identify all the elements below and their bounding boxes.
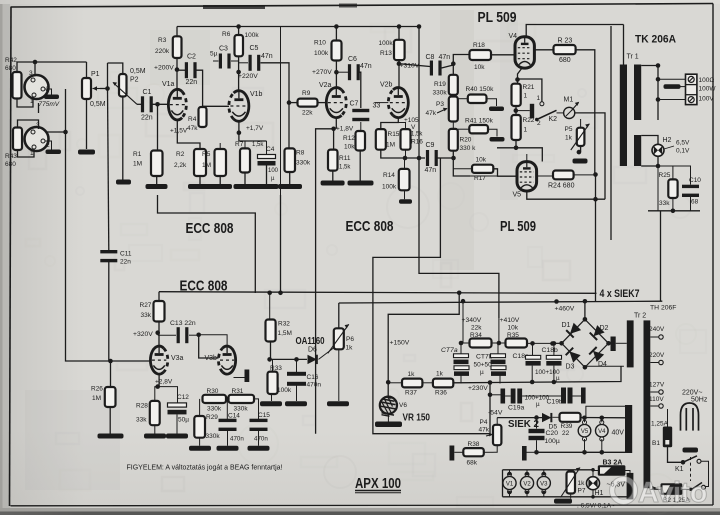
svg-text:33k: 33k bbox=[136, 417, 147, 424]
resistor R37 bbox=[402, 371, 422, 397]
svg-text:V2a: V2a bbox=[319, 82, 332, 89]
svg-text:127V: 127V bbox=[649, 382, 665, 389]
svg-text:100W: 100W bbox=[699, 86, 717, 93]
potentiometer P4 bbox=[479, 419, 502, 445]
wire to V3a grid bbox=[63, 130, 150, 364]
label C3 5u bbox=[210, 46, 228, 58]
tube V5 bbox=[513, 162, 537, 199]
label ~6,3V bbox=[607, 482, 626, 489]
wire XLR2 node bbox=[18, 103, 39, 157]
svg-text:µ: µ bbox=[536, 401, 540, 408]
capacitor C6 bbox=[348, 56, 372, 80]
wire right feeds bbox=[660, 211, 662, 301]
svg-text:D2: D2 bbox=[600, 325, 609, 332]
capacitor C11 bbox=[100, 250, 132, 266]
ground R12 bbox=[348, 181, 374, 186]
tube V3b bbox=[205, 346, 236, 374]
svg-text:33k: 33k bbox=[141, 312, 152, 319]
svg-text:+1,7V: +1,7V bbox=[246, 125, 264, 132]
ground R5 bbox=[208, 143, 232, 189]
svg-text:47n: 47n bbox=[360, 63, 372, 70]
svg-text:C2: C2 bbox=[187, 54, 196, 61]
svg-text:33: 33 bbox=[373, 103, 381, 110]
ground V6 bbox=[375, 414, 402, 427]
svg-text:1,5M: 1,5M bbox=[278, 330, 292, 337]
wire P1 bbox=[86, 62, 88, 149]
capacitor C18b bbox=[546, 344, 561, 385]
svg-text:22: 22 bbox=[562, 430, 570, 437]
svg-text:1k: 1k bbox=[436, 371, 444, 378]
svg-text:330k: 330k bbox=[296, 160, 311, 167]
wire C9 right bbox=[438, 156, 456, 161]
heater V2 bbox=[520, 472, 533, 495]
svg-text:22n: 22n bbox=[141, 115, 153, 122]
switch K2 bbox=[535, 110, 557, 127]
resistor R1 bbox=[133, 151, 163, 177]
wire heater stubs bbox=[510, 470, 544, 497]
svg-text:V3a: V3a bbox=[171, 355, 184, 362]
lamp H1 bbox=[587, 468, 604, 499]
wire V5 cathode bbox=[527, 172, 605, 301]
wire C20 bottom bbox=[527, 440, 539, 454]
svg-text:R 23: R 23 bbox=[558, 38, 573, 45]
label +340V bbox=[462, 317, 483, 339]
labels outputs bbox=[699, 77, 717, 103]
svg-text:R43: R43 bbox=[5, 153, 17, 160]
label PL509 top bbox=[478, 10, 517, 26]
svg-text:+220V: +220V bbox=[238, 73, 258, 80]
svg-text:H1: H1 bbox=[595, 490, 604, 497]
svg-text:H2: H2 bbox=[663, 137, 672, 144]
svg-text:C6: C6 bbox=[348, 56, 357, 63]
transformer Tr1 secondary bottom bar bbox=[634, 135, 641, 166]
label +1,5V bbox=[170, 128, 188, 135]
wire C3 bbox=[213, 60, 239, 62]
capacitor C2 bbox=[185, 54, 197, 87]
svg-text:C3: C3 bbox=[219, 46, 228, 53]
resistor R7 bbox=[235, 141, 264, 173]
resistor R16 bbox=[401, 129, 424, 150]
svg-text:R11: R11 bbox=[339, 155, 351, 162]
wire P4 bbox=[494, 418, 498, 453]
svg-text:R33: R33 bbox=[270, 365, 282, 372]
wire R25 C10 top bbox=[658, 166, 691, 185]
svg-text:220k: 220k bbox=[155, 48, 170, 55]
svg-text:+1,8V: +1,8V bbox=[336, 126, 354, 133]
wire R33 bbox=[272, 359, 273, 401]
potentiometer P1 bbox=[82, 71, 106, 108]
label Tr 2 bbox=[634, 313, 646, 320]
wire Tr2 HV top bbox=[0, 0, 1, 1]
svg-text:R18: R18 bbox=[473, 42, 485, 49]
svg-text:100k: 100k bbox=[382, 184, 397, 191]
capacitor C10 bbox=[682, 177, 701, 206]
svg-text:P1: P1 bbox=[91, 71, 100, 78]
svg-text:R20: R20 bbox=[460, 137, 472, 144]
wire R39 bbox=[553, 416, 629, 419]
label C19b bbox=[547, 399, 563, 406]
svg-text:C20: C20 bbox=[546, 430, 559, 437]
svg-text:1M: 1M bbox=[133, 161, 142, 168]
svg-text:22k: 22k bbox=[302, 110, 313, 117]
resistor R24 bbox=[548, 171, 575, 190]
label ECC808 bottom bbox=[180, 279, 228, 295]
resistor R40 bbox=[466, 86, 495, 103]
svg-text:10k: 10k bbox=[474, 64, 485, 71]
label PL509 mid bbox=[500, 219, 536, 235]
wire R10 bbox=[334, 27, 339, 89]
label 775mV bbox=[39, 89, 60, 108]
diode D4 bbox=[589, 347, 607, 368]
label ECC808 mid bbox=[346, 219, 394, 235]
svg-text:Avito: Avito bbox=[638, 477, 707, 509]
heater V5b bbox=[578, 416, 591, 455]
svg-text:R30: R30 bbox=[207, 388, 219, 395]
wire R17 to V5 grid bbox=[470, 169, 517, 176]
svg-text:P5: P5 bbox=[565, 126, 573, 133]
wire 40V top bbox=[586, 406, 629, 417]
svg-text:47k: 47k bbox=[426, 110, 437, 117]
svg-text:+460V: +460V bbox=[555, 306, 575, 313]
fuse B2 bbox=[661, 483, 691, 504]
svg-text:470n: 470n bbox=[230, 436, 244, 443]
svg-text:1,25A: 1,25A bbox=[651, 421, 669, 428]
svg-text:68: 68 bbox=[691, 199, 699, 206]
capacitor C19a bbox=[501, 389, 523, 404]
wire R14 bbox=[399, 158, 412, 204]
svg-text:R2: R2 bbox=[176, 151, 185, 158]
heater V4b bbox=[596, 416, 609, 455]
resistor R36 bbox=[433, 371, 453, 397]
svg-text:680: 680 bbox=[5, 65, 16, 72]
capacitor C9 bbox=[425, 142, 438, 174]
label +460V bbox=[554, 299, 575, 312]
svg-text:R7: R7 bbox=[235, 141, 244, 148]
svg-text:K2: K2 bbox=[549, 116, 558, 123]
svg-text:0,5M: 0,5M bbox=[130, 68, 146, 75]
svg-text:R15: R15 bbox=[388, 131, 400, 138]
svg-text:C15: C15 bbox=[258, 412, 270, 419]
svg-text:1: 1 bbox=[524, 127, 528, 134]
label Tr 1 bbox=[627, 54, 639, 61]
svg-text:C19b: C19b bbox=[547, 399, 563, 406]
bus bottom ECC bbox=[159, 291, 597, 296]
svg-text:220V: 220V bbox=[649, 352, 665, 359]
section line ECC1 bbox=[158, 195, 256, 293]
wire R27 bbox=[155, 292, 160, 346]
svg-text:C12: C12 bbox=[177, 394, 189, 401]
wire R13 bbox=[397, 24, 402, 88]
svg-text:SIEK 2: SIEK 2 bbox=[508, 418, 539, 430]
label +320V bbox=[133, 331, 153, 338]
svg-text:P6: P6 bbox=[346, 336, 354, 343]
wire B1 bbox=[668, 409, 686, 465]
plug base bar bbox=[683, 431, 699, 453]
resistor R17 bbox=[472, 157, 493, 183]
transformer Tr2 63V bar bbox=[627, 473, 634, 500]
wire Tr1 secondary top bbox=[641, 63, 660, 120]
wire R1 bbox=[156, 104, 159, 184]
svg-text:50+50: 50+50 bbox=[474, 362, 493, 369]
ground P5 bbox=[573, 159, 588, 164]
svg-text:330k: 330k bbox=[207, 406, 222, 413]
diode D5 bbox=[542, 413, 557, 431]
svg-text:R12: R12 bbox=[343, 135, 355, 142]
tube V1a bbox=[162, 81, 186, 120]
svg-text:R29: R29 bbox=[206, 414, 218, 421]
capacitor C12 bbox=[168, 394, 190, 424]
svg-text:TK 206A: TK 206A bbox=[635, 34, 676, 46]
svg-text:. 6,5V/ 0,1A -: . 6,5V/ 0,1A - bbox=[577, 503, 615, 510]
potentiometer P2 bbox=[113, 68, 146, 104]
label C18a bbox=[513, 353, 529, 360]
svg-text:V1: V1 bbox=[506, 482, 514, 488]
svg-text:1k: 1k bbox=[578, 480, 586, 487]
svg-text:+230V: +230V bbox=[468, 385, 488, 392]
wire C19 node bbox=[488, 393, 581, 398]
svg-text:3: 3 bbox=[29, 70, 33, 77]
svg-text:B1: B1 bbox=[652, 440, 660, 447]
svg-text:K1: K1 bbox=[675, 466, 684, 473]
wire P1 wiper to node bbox=[100, 86, 110, 91]
svg-text:47k: 47k bbox=[479, 427, 490, 434]
label CT7a bbox=[441, 347, 458, 354]
svg-text:1M: 1M bbox=[92, 395, 101, 402]
wire V3b grid bbox=[199, 335, 219, 358]
switch K1 pole2 bbox=[689, 457, 705, 491]
resistor R3 bbox=[155, 36, 182, 58]
svg-text:100k: 100k bbox=[379, 40, 394, 47]
resistor R13 bbox=[394, 40, 405, 60]
svg-text:R1: R1 bbox=[133, 151, 142, 158]
label +220V bbox=[238, 73, 258, 80]
wire bridge bottom bbox=[585, 366, 624, 367]
wire R4 to V1b grid bbox=[203, 105, 229, 107]
ground P2 bbox=[116, 180, 131, 185]
P4 arrow bbox=[486, 433, 493, 437]
svg-text:10k: 10k bbox=[476, 157, 487, 164]
svg-text:C14: C14 bbox=[228, 413, 240, 420]
capacitor C3 bbox=[219, 54, 231, 69]
wire R41 bbox=[458, 129, 505, 141]
svg-text:PL 509: PL 509 bbox=[478, 10, 517, 26]
ground P6 bbox=[327, 401, 349, 406]
label +2,8V bbox=[155, 379, 173, 386]
resistor R22 bbox=[512, 115, 535, 140]
svg-text:R40 150k: R40 150k bbox=[466, 86, 495, 93]
svg-text:C13 22n: C13 22n bbox=[170, 320, 196, 327]
ground P1 bbox=[78, 150, 95, 155]
wire C1 right to V1a grid bbox=[152, 102, 169, 107]
svg-text:330k: 330k bbox=[234, 406, 249, 413]
tube V6 VR150 bbox=[380, 397, 408, 417]
fuse B3 bbox=[598, 460, 626, 476]
wire P6 bbox=[338, 303, 340, 401]
svg-text:5µ: 5µ bbox=[210, 51, 218, 58]
transformer Tr2 40V bar bbox=[625, 405, 632, 453]
svg-text:470n: 470n bbox=[307, 382, 322, 389]
svg-text:R5: R5 bbox=[202, 151, 211, 158]
label +1,8V bbox=[336, 126, 354, 133]
svg-text:1: 1 bbox=[537, 95, 541, 102]
svg-text:+200V: +200V bbox=[154, 65, 174, 72]
svg-text:R42: R42 bbox=[5, 57, 17, 64]
svg-text:50Hz: 50Hz bbox=[691, 397, 708, 404]
svg-text:P3: P3 bbox=[436, 101, 444, 108]
resistor R29 bbox=[194, 414, 220, 440]
wire heater top bus bbox=[503, 470, 594, 497]
svg-text:CT7a: CT7a bbox=[441, 347, 458, 354]
label 100+100 mid bbox=[525, 395, 550, 409]
wire R29 top bbox=[199, 399, 201, 416]
wire bridge left bbox=[550, 341, 561, 346]
svg-text:R19: R19 bbox=[434, 81, 446, 88]
terminal block bbox=[686, 74, 697, 104]
lamp H2 bbox=[641, 136, 671, 157]
svg-text:C8: C8 bbox=[426, 54, 435, 61]
svg-text:C10: C10 bbox=[689, 177, 701, 184]
heater V1 bbox=[503, 472, 516, 495]
wire +460 rail bbox=[339, 301, 663, 303]
resistor R32 bbox=[266, 320, 292, 342]
wire H2 bottom bbox=[641, 156, 660, 211]
svg-text:100k: 100k bbox=[314, 50, 329, 57]
label 40V bbox=[612, 430, 625, 437]
label CT7b bbox=[474, 354, 493, 377]
wire V2b cathode bbox=[381, 118, 406, 130]
contact bar K2 bbox=[530, 104, 534, 119]
wire V4 anode bbox=[526, 25, 623, 37]
diode D2 bbox=[590, 325, 609, 340]
resistor R42 bbox=[5, 57, 22, 99]
tube V3a bbox=[150, 346, 183, 374]
wire V5 anode bbox=[526, 154, 528, 162]
wire B3 bbox=[593, 471, 630, 473]
wire R3 anode bbox=[175, 27, 180, 90]
svg-text:P4: P4 bbox=[480, 419, 488, 426]
wire R18 right bbox=[491, 54, 515, 56]
node line down to C11 bbox=[108, 63, 109, 251]
resistor R27 bbox=[140, 301, 165, 322]
capacitor C7 bbox=[350, 101, 381, 122]
resistor R6 bbox=[222, 31, 259, 56]
ground C15 bbox=[248, 428, 270, 451]
resistor R28 bbox=[136, 401, 160, 425]
meter M1 bbox=[564, 97, 580, 119]
wire C1 left bbox=[137, 103, 142, 105]
svg-text:470n: 470n bbox=[254, 436, 268, 443]
ground R33 bbox=[260, 401, 282, 406]
resistor R2 bbox=[174, 149, 206, 176]
resistor R39 bbox=[560, 413, 581, 437]
wire V4 cathode bbox=[515, 68, 542, 102]
resistor R20 bbox=[449, 129, 476, 152]
bar R38 left bbox=[450, 446, 494, 461]
wire heater bottom bus bbox=[503, 496, 631, 498]
svg-text:D4: D4 bbox=[598, 361, 607, 368]
wire R23 bbox=[534, 50, 594, 175]
label ECC808 first bbox=[186, 221, 234, 237]
wire stair A bbox=[373, 158, 490, 434]
label TH 206F bbox=[650, 305, 676, 312]
svg-text:220V~: 220V~ bbox=[682, 390, 702, 397]
resistor R34 bbox=[470, 339, 492, 348]
svg-text:ECC 808: ECC 808 bbox=[186, 221, 234, 237]
wire R40 bbox=[458, 99, 504, 111]
diode D6 bbox=[270, 355, 317, 364]
capacitor C1 bbox=[141, 89, 153, 122]
svg-text:C4: C4 bbox=[266, 146, 275, 153]
wire out 100R bbox=[656, 77, 686, 82]
diode D3 bbox=[566, 348, 581, 371]
label +230V bbox=[468, 385, 488, 392]
resistor R30 bbox=[203, 388, 227, 413]
resistor R5 bbox=[202, 149, 226, 176]
svg-text:µ: µ bbox=[271, 176, 275, 182]
fuse B1 bbox=[652, 427, 672, 448]
tube V2b bbox=[380, 82, 408, 118]
wire bottom node bbox=[648, 197, 700, 213]
capacitor C16 bbox=[287, 359, 321, 388]
svg-text:P7: P7 bbox=[578, 488, 586, 495]
switch K1 bbox=[675, 456, 701, 473]
svg-text:+340V: +340V bbox=[462, 317, 482, 324]
ground C14 bbox=[217, 428, 239, 451]
svg-text:0,5M: 0,5M bbox=[90, 101, 106, 108]
wire P5 bbox=[577, 119, 582, 154]
capacitor C20 bbox=[529, 418, 560, 445]
label OA1160 bbox=[296, 336, 325, 354]
svg-text:FIGYELEM: A változtatás jogát: FIGYELEM: A változtatás jogát a BEAG fen… bbox=[127, 465, 283, 472]
svg-text:OA1160: OA1160 bbox=[296, 336, 325, 347]
svg-text:R39: R39 bbox=[561, 423, 573, 430]
resistor R9 bbox=[298, 90, 318, 117]
svg-text:D6: D6 bbox=[308, 347, 317, 354]
wire R32 bbox=[267, 293, 272, 362]
svg-text:V2: V2 bbox=[523, 482, 531, 488]
potentiometer P3 bbox=[449, 97, 458, 122]
capacitor CT7b bbox=[491, 343, 507, 376]
wire P2 top bbox=[108, 63, 123, 74]
svg-text:R41 150k: R41 150k bbox=[465, 118, 494, 125]
wire V2b grid bbox=[375, 102, 389, 104]
svg-text:100k: 100k bbox=[245, 32, 260, 39]
svg-text:1k: 1k bbox=[565, 135, 573, 142]
cathode bar V3b bbox=[234, 370, 250, 383]
svg-text:-54V: -54V bbox=[488, 410, 503, 417]
ground C16 bbox=[285, 382, 307, 406]
tap 240V bbox=[649, 326, 665, 339]
transformer Tr1 primary bar bbox=[620, 65, 627, 167]
svg-text:47n: 47n bbox=[425, 167, 437, 174]
svg-text:R28: R28 bbox=[136, 403, 148, 410]
resistor R15 bbox=[376, 129, 400, 150]
svg-text:330k: 330k bbox=[206, 433, 221, 440]
capacitor C14 bbox=[219, 413, 245, 443]
ground R11 bbox=[321, 171, 345, 186]
svg-text:+270V: +270V bbox=[312, 69, 332, 76]
svg-text:R31: R31 bbox=[232, 388, 244, 395]
wire x280 up bbox=[280, 27, 282, 293]
wire heater 40V bottom bbox=[537, 451, 629, 454]
wire R24 bbox=[537, 175, 596, 176]
wire C6 bbox=[336, 72, 360, 108]
svg-text:V4: V4 bbox=[598, 429, 606, 435]
capacitor C5 bbox=[249, 45, 273, 71]
contact 1 upper bbox=[537, 95, 544, 106]
svg-text:µ: µ bbox=[556, 375, 560, 382]
resistor R8 bbox=[285, 148, 311, 172]
